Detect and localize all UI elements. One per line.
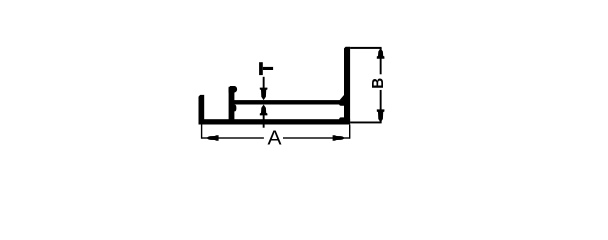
svg-text:A: A [268, 127, 282, 149]
svg-text:B: B [370, 78, 387, 89]
